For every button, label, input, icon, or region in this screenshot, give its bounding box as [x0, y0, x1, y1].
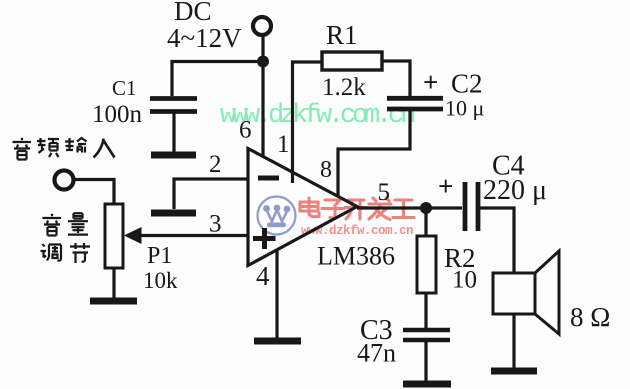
ground (speaker): [491, 368, 537, 375]
svg-text:10k: 10k: [143, 268, 178, 293]
wire P1 to ground: [112, 268, 115, 298]
label 音量调节: [41, 213, 91, 263]
wire input to P1: [74, 180, 115, 205]
wire C2 to pin 8: [338, 110, 410, 196]
svg-text:4~12V: 4~12V: [167, 23, 242, 53]
wire pin 2 to ground: [174, 179, 247, 209]
plus input marking: [253, 228, 276, 249]
发: [369, 198, 391, 220]
wire C1 to ground: [172, 110, 175, 152]
input terminal: [55, 171, 74, 190]
王: [393, 200, 414, 218]
ground (pin 2): [151, 210, 196, 217]
svg-text:47n: 47n: [357, 339, 396, 368]
svg-text:5: 5: [378, 179, 391, 206]
节: [70, 243, 90, 263]
调: [41, 244, 62, 261]
电: [300, 198, 319, 217]
svg-text:3: 3: [209, 211, 222, 238]
ground (C1): [151, 152, 196, 159]
svg-text:1.2k: 1.2k: [322, 74, 366, 101]
resistor R2: [417, 236, 436, 293]
频: [37, 138, 59, 157]
wire speaker to ground: [512, 314, 515, 368]
capacitor C4: [465, 182, 478, 231]
watermark logo circle W: [258, 197, 296, 235]
svg-text:4: 4: [256, 261, 270, 291]
svg-text:10: 10: [452, 267, 477, 294]
svg-text:C1: C1: [112, 76, 137, 100]
svg-text:P1: P1: [147, 243, 172, 269]
resistor R1: [322, 52, 382, 70]
svg-text:+: +: [423, 67, 438, 97]
音: [13, 138, 32, 160]
量: [68, 213, 88, 234]
speaker LS: [493, 251, 559, 334]
svg-text:C2: C2: [451, 69, 483, 99]
svg-text:8 Ω: 8 Ω: [570, 302, 610, 332]
wire pin 4 to ground: [275, 250, 278, 338]
junction supply node: [257, 56, 269, 68]
label 音频输入: [13, 138, 115, 160]
svg-text:LM386: LM386: [317, 242, 395, 271]
wire supply node to C1: [172, 62, 263, 97]
minus input marking: [258, 176, 279, 181]
wire pin 5 output: [357, 206, 462, 209]
svg-text:100n: 100n: [92, 101, 143, 128]
wire terminal to supply node: [261, 35, 264, 61]
junction output node: [420, 202, 432, 214]
wire pin 1 to R1: [293, 62, 323, 183]
ground (C3): [403, 381, 451, 388]
potentiometer P1: [105, 204, 123, 268]
入: [94, 139, 115, 158]
watermark red brand 电子开发王: [300, 198, 414, 220]
wire C3 to ground: [424, 340, 427, 382]
svg-text:R1: R1: [326, 20, 358, 50]
svg-text:6: 6: [239, 117, 252, 144]
capacitor C3: [403, 330, 450, 340]
svg-text:8: 8: [320, 157, 332, 183]
ground (pin 4): [254, 338, 301, 345]
svg-text:220 μ: 220 μ: [483, 175, 547, 206]
capacitor C2: [387, 98, 443, 109]
wire C4 to speaker: [478, 208, 514, 273]
svg-text:1: 1: [277, 131, 290, 158]
子: [322, 200, 344, 218]
ground (P1): [90, 298, 137, 305]
wire output node to R2: [424, 208, 427, 236]
svg-text:2: 2: [209, 151, 222, 178]
wiper arrow of P1: [124, 227, 142, 244]
音: [43, 214, 62, 236]
capacitor C1: [150, 99, 197, 112]
wire R2 to C3: [424, 293, 427, 328]
DC supply terminal: [253, 17, 271, 35]
wire R1 to C2: [382, 61, 410, 97]
wire pin 3 from P1 wiper: [138, 234, 248, 237]
输: [65, 138, 87, 153]
svg-text:+: +: [438, 171, 453, 201]
op-amp U1 LM386: [248, 149, 357, 266]
svg-text:10 μ: 10 μ: [445, 96, 484, 121]
wire pin 6 from supply node: [261, 61, 264, 157]
开: [345, 200, 367, 219]
